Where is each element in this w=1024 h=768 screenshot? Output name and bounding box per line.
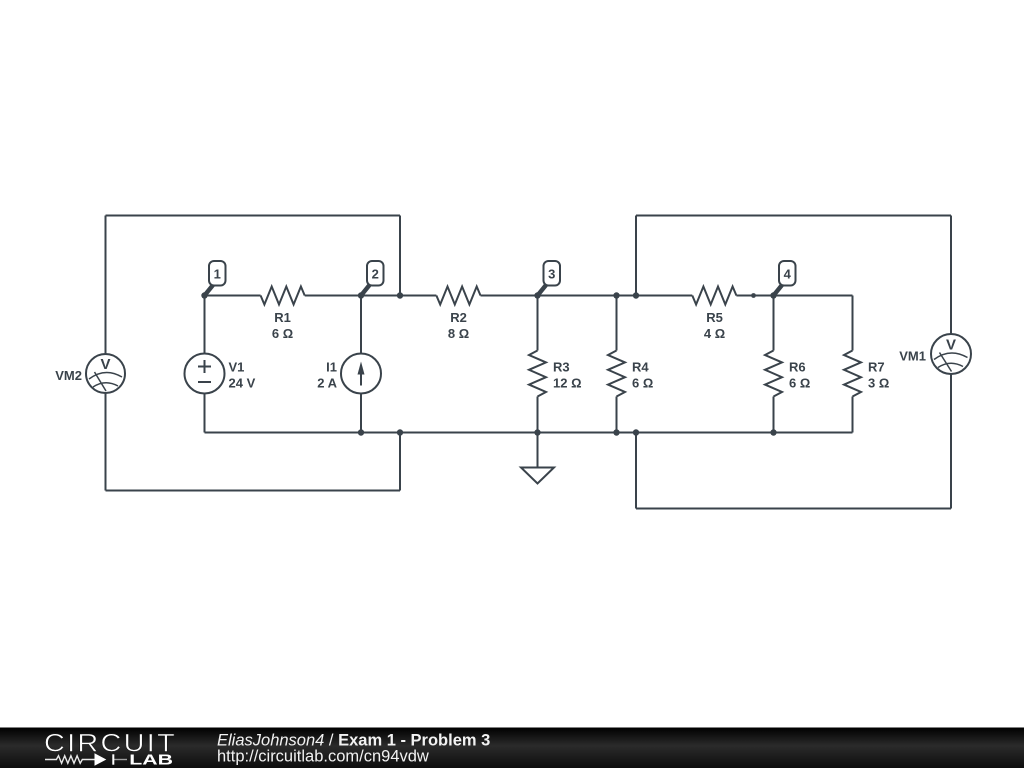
junction at (400,295.5) — [397, 292, 403, 298]
svg-text:http://circuitlab.com/cn94vdw: http://circuitlab.com/cn94vdw — [217, 748, 429, 766]
svg-text:6 Ω: 6 Ω — [272, 326, 293, 341]
node 2 — [358, 261, 384, 299]
wire right box left side upper — [635, 216, 637, 296]
svg-text:VM2: VM2 — [55, 368, 82, 383]
footer bar — [0, 728, 1024, 768]
label R3 12Ω — [553, 360, 582, 391]
wire left box bottom side — [106, 490, 401, 492]
svg-text:R7: R7 — [868, 360, 885, 375]
label I1 2A — [317, 360, 337, 391]
svg-text:4: 4 — [784, 267, 792, 282]
svg-text:12 Ω: 12 Ω — [553, 376, 582, 391]
current source I1 — [341, 354, 381, 394]
voltage source V1 — [185, 354, 225, 394]
svg-text:24 V: 24 V — [229, 376, 256, 391]
svg-text:R1: R1 — [274, 310, 291, 325]
node endpoint dot — [751, 293, 756, 298]
wire node1 to R1 — [205, 295, 261, 297]
wire bottom rail — [205, 432, 853, 434]
svg-text:V: V — [100, 356, 110, 373]
label R7 3Ω — [868, 360, 889, 391]
node 4 — [770, 261, 795, 299]
svg-text:3 Ω: 3 Ω — [868, 376, 889, 391]
resistor R2 — [436, 287, 480, 305]
label R2 8Ω — [448, 310, 469, 341]
wire left box right side lower — [399, 433, 401, 491]
svg-text:V: V — [946, 337, 956, 354]
wire node4 to R6 — [773, 296, 775, 351]
wire right box right side upper — [950, 216, 952, 335]
junction R4 top — [613, 292, 619, 298]
svg-text:2 A: 2 A — [317, 376, 337, 391]
resistor R7 — [844, 351, 861, 397]
wire I1 to bottom — [360, 394, 362, 433]
wire R1 to R2 — [305, 295, 437, 297]
resistor R6 — [765, 351, 782, 397]
label V1 24V — [229, 360, 256, 391]
svg-text:VM1: VM1 — [899, 349, 926, 364]
wire right box bottom side — [636, 508, 951, 510]
junction right box at top rail — [633, 292, 639, 298]
wire left box left side lower — [105, 393, 107, 491]
CircuitLab logo — [44, 730, 177, 768]
svg-text:I1: I1 — [326, 360, 337, 375]
resistor R1 — [261, 287, 305, 305]
voltmeter VM1 — [931, 334, 971, 374]
svg-text:6 Ω: 6 Ω — [789, 376, 810, 391]
wire R2 to R5 — [481, 295, 693, 297]
wire R3 to bottom — [537, 397, 539, 433]
svg-text:R5: R5 — [706, 310, 723, 325]
label R6 6Ω — [789, 360, 810, 391]
wire node1 to V1 — [204, 296, 206, 354]
resistor R3 — [529, 351, 546, 397]
wire R7 to bottom — [852, 397, 854, 433]
wire R5 to top right corner — [736, 295, 852, 297]
label R5 4Ω — [704, 310, 725, 341]
wire left box top side — [106, 215, 401, 217]
svg-text:4 Ω: 4 Ω — [704, 326, 725, 341]
wire right box top side — [636, 215, 951, 217]
junction R6 bottom — [770, 429, 776, 435]
resistor R5 — [692, 287, 736, 305]
node 3 — [534, 261, 560, 299]
label R4 6Ω — [632, 360, 653, 391]
node 1 — [201, 261, 225, 299]
wire V1 to bottom — [204, 394, 206, 433]
junction R3 bottom — [534, 429, 540, 435]
svg-text:V1: V1 — [229, 360, 245, 375]
junction I1 bottom — [358, 429, 364, 435]
svg-text:8 Ω: 8 Ω — [448, 326, 469, 341]
svg-text:R2: R2 — [450, 310, 467, 325]
voltmeter VM2 — [86, 354, 125, 393]
svg-text:2: 2 — [372, 267, 379, 282]
svg-text:1: 1 — [214, 267, 221, 282]
wire left box right side upper — [399, 216, 401, 296]
svg-text:3: 3 — [548, 267, 555, 282]
svg-text:R3: R3 — [553, 360, 570, 375]
wire right box right side lower — [950, 374, 952, 509]
svg-text:R4: R4 — [632, 360, 649, 375]
wire left box left side upper — [105, 216, 107, 355]
wire node2 to I1 — [360, 296, 362, 354]
wire R4 to bottom — [616, 397, 618, 433]
svg-text:6 Ω: 6 Ω — [632, 376, 653, 391]
wire top right corner down to R7 — [852, 296, 854, 351]
junction at (400,432.5) — [397, 429, 403, 435]
junction R4 bottom — [613, 429, 619, 435]
ground — [521, 433, 554, 484]
wire top rail R4 branch — [616, 296, 618, 351]
wire right box left side lower — [635, 433, 637, 509]
wire R6 to bottom — [773, 397, 775, 433]
label R1 6Ω — [272, 310, 293, 341]
svg-text:R6: R6 — [789, 360, 806, 375]
junction right box at bottom rail — [633, 429, 639, 435]
resistor R4 — [608, 351, 625, 397]
svg-text:LAB: LAB — [129, 751, 173, 768]
wire node3 to R3 — [537, 296, 539, 351]
